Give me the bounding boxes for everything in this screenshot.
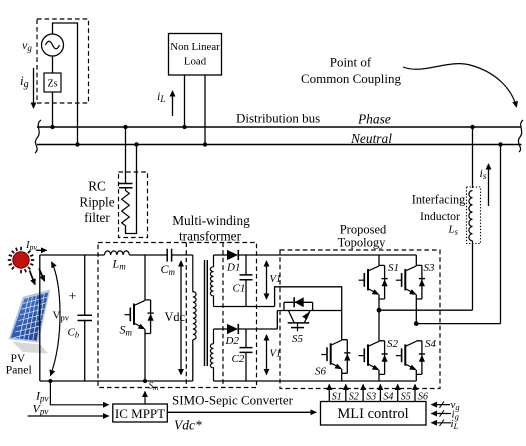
capacitor Cb xyxy=(84,255,86,381)
node dot phase-load xyxy=(182,125,186,129)
dashed box proposed topology xyxy=(280,250,440,389)
svg-text:S5: S5 xyxy=(292,333,304,345)
PV panel xyxy=(9,290,51,354)
svg-text:Multi-winding: Multi-winding xyxy=(172,213,250,228)
transistor S3 igbt xyxy=(415,255,417,265)
capacitor C2 xyxy=(245,329,247,381)
wire sepic bottom rail xyxy=(40,380,193,382)
svg-text:MLI control: MLI control xyxy=(337,406,408,422)
svg-text:S3: S3 xyxy=(366,392,376,403)
transformer secondary winding 1 xyxy=(210,255,213,307)
bus break squiggle right xyxy=(518,120,523,152)
node dot neutral-filter xyxy=(134,142,138,146)
svg-text:Zs: Zs xyxy=(48,79,58,90)
svg-text:Common Coupling: Common Coupling xyxy=(301,71,402,86)
node dot leg2 midpoint xyxy=(414,321,419,326)
svg-text:Vdc: Vdc xyxy=(165,310,186,324)
box IC MPPT xyxy=(113,404,168,422)
measure arrow V1 output1 xyxy=(266,261,268,299)
wire phase down to interfacing inductor xyxy=(472,127,474,188)
gate arrow S6 xyxy=(414,385,416,402)
wire output1 bottom xyxy=(214,306,275,308)
wire leg1 midpoint to Ls xyxy=(379,309,473,311)
wire Ls to bridge leg1 midpoint xyxy=(472,241,474,311)
capacitor filter C xyxy=(119,184,133,188)
impedance Zs box xyxy=(44,73,61,92)
node dot neutral-pcc xyxy=(498,142,502,146)
svg-text:C2: C2 xyxy=(232,353,245,365)
svg-text:filter: filter xyxy=(84,210,110,225)
current arrow is xyxy=(488,164,490,206)
gate arrow S5 xyxy=(397,385,399,402)
wire sepic top rail xyxy=(40,254,105,256)
wire pv left rail xyxy=(39,255,41,381)
svg-text:Distribution bus: Distribution bus xyxy=(236,111,320,126)
switch S5 bidirectional xyxy=(277,297,341,331)
svg-text:Non Linear: Non Linear xyxy=(170,41,220,53)
svg-text:Vdc*: Vdc* xyxy=(174,418,202,433)
transformer secondary winding 2 xyxy=(210,329,213,381)
inductor Lm xyxy=(105,251,130,255)
svg-text:transformer: transformer xyxy=(179,229,242,244)
svg-text:S6: S6 xyxy=(418,392,428,403)
wire output2 top xyxy=(238,328,277,330)
svg-text:IC MPPT: IC MPPT xyxy=(115,406,165,421)
transistor Sm igbt xyxy=(144,255,146,300)
wire node A riser (output1 bottom up and over) xyxy=(275,287,342,340)
svg-text:Load: Load xyxy=(184,56,207,68)
diode D2 xyxy=(214,328,228,330)
sun irradiance arrows xyxy=(30,271,36,285)
svg-text:Interfacing: Interfacing xyxy=(412,193,465,207)
pcc pointer curve xyxy=(403,64,517,107)
svg-text:D1: D1 xyxy=(226,262,240,274)
svg-text:S4: S4 xyxy=(425,338,437,350)
svg-text:+: + xyxy=(69,290,77,305)
wire phase to filter cap xyxy=(125,127,127,184)
node dot phase-source xyxy=(50,125,54,129)
svg-text:S2: S2 xyxy=(387,338,399,350)
resistor filter R zigzag xyxy=(122,188,130,226)
svg-text:S3: S3 xyxy=(424,262,436,274)
svg-text:SIMO-Sepic Converter: SIMO-Sepic Converter xyxy=(172,393,294,408)
transformer primary winding xyxy=(193,255,196,340)
svg-text:Neutral: Neutral xyxy=(350,131,392,146)
signal Vdc* MPPT to MLI xyxy=(167,411,316,413)
transistor S6 igbt xyxy=(321,340,350,374)
svg-text:S5: S5 xyxy=(401,392,411,403)
measure arrow Vdc xyxy=(180,261,182,375)
capacitor Cm xyxy=(167,249,171,262)
wire Neutral distribution bus line xyxy=(37,144,522,146)
input arrow ig xyxy=(432,413,452,415)
transistor S4 igbt xyxy=(396,341,425,375)
wire Cm to primary xyxy=(172,254,193,256)
svg-text:D2: D2 xyxy=(225,335,240,347)
signal Vpv into MPPT xyxy=(28,415,109,417)
svg-text:S1: S1 xyxy=(332,392,342,403)
wire load right to neutral xyxy=(204,75,206,145)
inductor Ls coil xyxy=(469,191,473,241)
transistor S1 igbt xyxy=(378,255,380,265)
input arrow iL xyxy=(432,422,452,424)
svg-text:S6: S6 xyxy=(315,366,327,378)
svg-text:S2: S2 xyxy=(349,392,359,403)
wire source bottom to Zs xyxy=(52,56,54,73)
wire output2 top riser to S5 xyxy=(276,311,278,330)
capacitor C1 xyxy=(245,255,247,307)
svg-text:Phase: Phase xyxy=(357,112,391,127)
svg-text:C1: C1 xyxy=(233,283,246,295)
wire bottom rail full xyxy=(214,380,417,382)
current arrow Ipv top xyxy=(36,249,47,251)
gate arrow S3 xyxy=(362,385,364,402)
wire Phase distribution bus line xyxy=(37,126,522,128)
input arrow vg xyxy=(432,404,451,406)
transistor S2 igbt xyxy=(378,310,380,341)
dashed box SIMO-Sepic converter xyxy=(98,243,257,388)
dashed box multi-winding transformer xyxy=(186,243,223,388)
wire Zs to phase xyxy=(52,92,54,127)
wire source top to neutral xyxy=(53,23,78,145)
measure arc Vpv xyxy=(51,262,61,376)
wire Lm to Cm xyxy=(129,254,167,256)
svg-text:Topology: Topology xyxy=(338,236,386,250)
svg-text:Proposed: Proposed xyxy=(340,223,387,237)
signal Ipv into MPPT xyxy=(50,381,108,405)
wire filter bottom to neutral xyxy=(126,145,137,234)
gate arrow S4 xyxy=(379,385,381,402)
node dot Sm emitter xyxy=(143,379,147,383)
node dot leg1 midpoint xyxy=(377,308,382,313)
node dot phase-filter xyxy=(123,125,127,129)
box Non Linear Load xyxy=(169,34,222,76)
gate arrow S2 xyxy=(345,385,347,402)
wire bridge top rail xyxy=(238,254,416,256)
svg-text:Panel: Panel xyxy=(6,363,33,377)
measure arrow V1 output2 xyxy=(266,335,268,375)
ac source vg circle xyxy=(42,34,64,56)
node dot Ipv tap xyxy=(48,379,52,383)
transformer core xyxy=(205,260,208,366)
svg-text:Inductor: Inductor xyxy=(420,209,460,223)
diode D1 xyxy=(214,254,228,256)
dotted box interfacing inductor xyxy=(467,187,481,244)
current arrow ig xyxy=(33,68,35,108)
box MLI control xyxy=(321,402,427,426)
gate arrow Sm xyxy=(144,392,146,405)
wire load left to phase xyxy=(184,75,186,127)
svg-text:S4: S4 xyxy=(383,392,393,403)
wire neutral down to bridge leg2 midpoint xyxy=(500,145,502,324)
svg-text:Ripple: Ripple xyxy=(79,195,114,210)
svg-text:RC: RC xyxy=(88,179,106,194)
gate arrow S1 xyxy=(328,385,330,402)
svg-text:S1: S1 xyxy=(388,262,399,274)
current arrow iL xyxy=(172,91,174,116)
node dot neutral-load xyxy=(203,142,207,146)
node dot neutral-source xyxy=(75,142,79,146)
bus break squiggle left xyxy=(35,120,41,153)
dashed box RC ripple filter xyxy=(119,172,148,238)
wire leg2 midpoint to neutral drop xyxy=(416,323,500,325)
node dot phase-pcc xyxy=(470,125,474,129)
sun xyxy=(8,247,34,273)
dashed box grid source xyxy=(37,19,89,103)
svg-text:Point of: Point of xyxy=(330,55,372,70)
